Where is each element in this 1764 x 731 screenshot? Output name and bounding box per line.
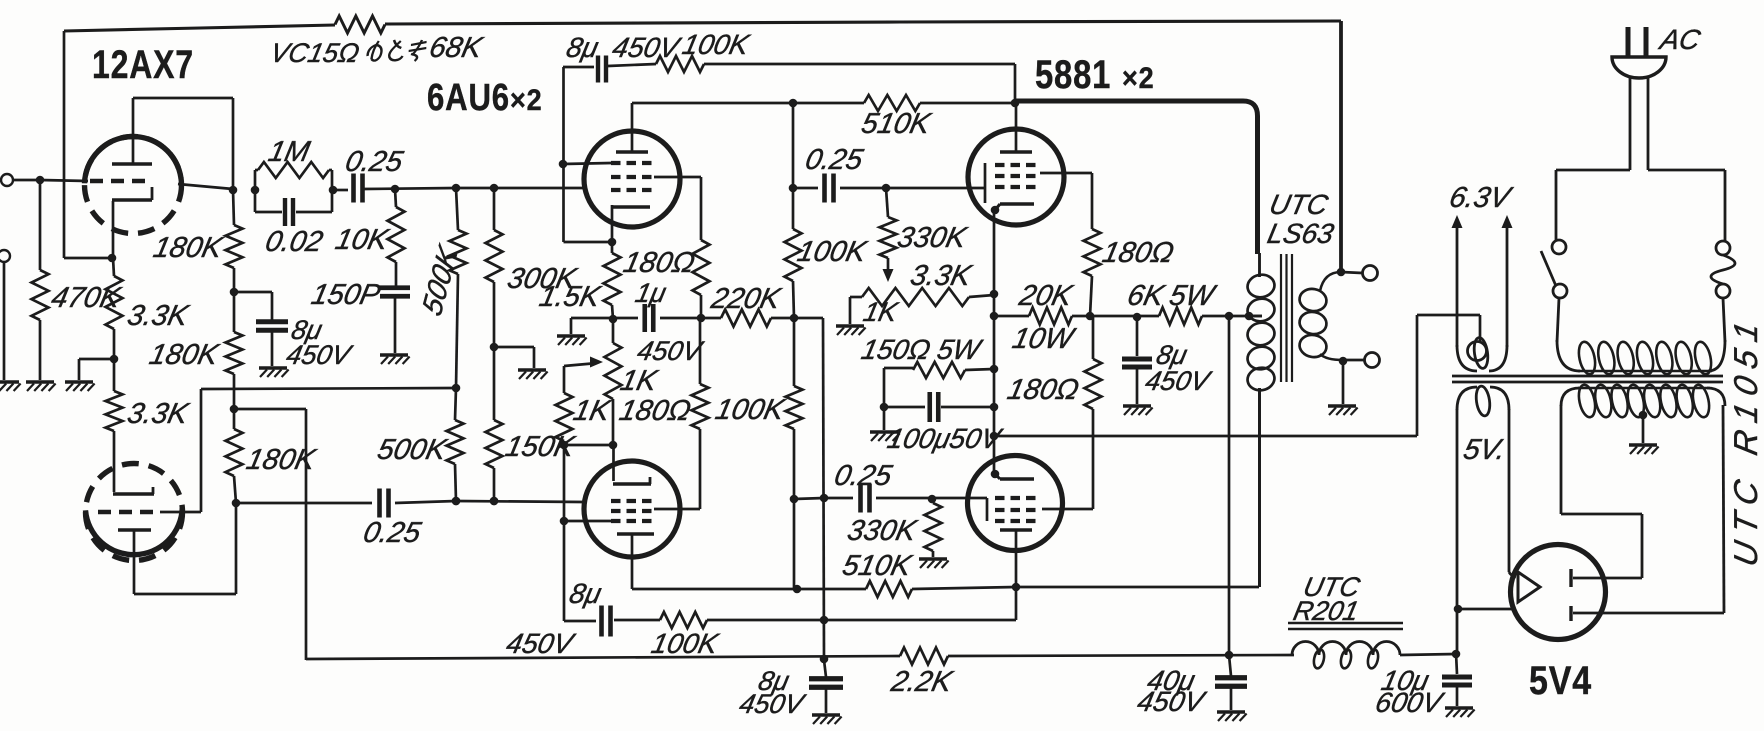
svg-text:450V: 450V (610, 31, 685, 63)
svg-text:5881: 5881 (1035, 52, 1111, 97)
svg-text:510K: 510K (859, 107, 935, 140)
svg-text:6.3V: 6.3V (1447, 181, 1516, 214)
svg-text:180K: 180K (151, 231, 227, 264)
svg-text:1.5K: 1.5K (537, 280, 605, 313)
svg-text:UTC: UTC (1267, 188, 1332, 220)
svg-text:330K: 330K (895, 221, 971, 254)
svg-text:180K: 180K (244, 443, 320, 476)
svg-text:180Ω: 180Ω (617, 394, 694, 427)
svg-text:450V: 450V (504, 627, 579, 659)
svg-text:220K: 220K (708, 282, 785, 315)
svg-text:6AU6: 6AU6 (427, 77, 510, 119)
svg-text:×2: ×2 (510, 84, 543, 118)
svg-text:0.02: 0.02 (263, 225, 326, 258)
svg-text:68K: 68K (427, 31, 487, 64)
svg-text:330K: 330K (845, 514, 921, 547)
svg-text:100K: 100K (680, 28, 753, 60)
svg-text:10K: 10K (333, 223, 393, 256)
svg-text:R201: R201 (1291, 595, 1362, 626)
svg-text:1M: 1M (266, 135, 314, 168)
svg-text:150P: 150P (309, 278, 384, 311)
svg-text:0.25: 0.25 (343, 145, 407, 178)
svg-text:180Ω: 180Ω (1100, 236, 1177, 269)
svg-text:0.25: 0.25 (803, 143, 867, 176)
svg-text:0.25: 0.25 (361, 516, 425, 549)
svg-text:450V: 450V (284, 339, 356, 370)
svg-text:0.25: 0.25 (832, 459, 896, 492)
svg-text:510K: 510K (840, 549, 916, 582)
svg-text:3.3K: 3.3K (908, 259, 976, 292)
svg-text:LS63: LS63 (1265, 217, 1337, 249)
svg-text:5V.: 5V. (1461, 433, 1509, 466)
svg-text:100K: 100K (649, 627, 722, 659)
svg-text:500K: 500K (375, 433, 451, 466)
svg-text:100μ50V: 100μ50V (885, 422, 1007, 454)
svg-text:450V: 450V (1143, 365, 1215, 396)
svg-text:450V: 450V (1135, 685, 1210, 717)
svg-text:100K: 100K (713, 393, 789, 426)
svg-text:2.2K: 2.2K (888, 665, 957, 698)
svg-text:450V: 450V (635, 335, 707, 366)
svg-text:180Ω: 180Ω (1005, 373, 1082, 406)
svg-text:12AX7: 12AX7 (92, 42, 194, 87)
svg-text:20K: 20K (1016, 279, 1077, 312)
svg-text:10W: 10W (1010, 322, 1079, 355)
svg-text:150Ω 5W: 150Ω 5W (859, 333, 986, 365)
svg-text:×2: ×2 (1122, 62, 1155, 96)
svg-text:VC15Ω: VC15Ω (268, 37, 363, 68)
svg-text:5V4: 5V4 (1529, 657, 1592, 702)
svg-text:3.3K: 3.3K (125, 299, 193, 332)
svg-text:100K: 100K (795, 235, 871, 268)
svg-text:3.3K: 3.3K (125, 397, 193, 430)
svg-text:180Ω: 180Ω (621, 246, 698, 279)
svg-text:450V: 450V (737, 688, 809, 719)
svg-text:180K: 180K (147, 338, 223, 371)
svg-text:600V: 600V (1373, 686, 1448, 718)
svg-text:AC: AC (1656, 23, 1704, 55)
